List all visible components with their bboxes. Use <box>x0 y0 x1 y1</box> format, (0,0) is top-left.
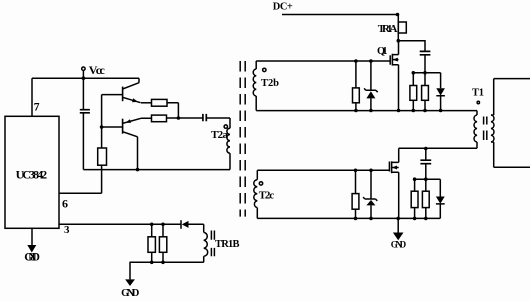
svg-text:DC+: DC+ <box>273 1 293 12</box>
svg-text:3: 3 <box>64 224 70 236</box>
svg-text:T2b: T2b <box>261 78 279 89</box>
svg-text:7: 7 <box>34 102 40 114</box>
svg-text:UC3842: UC3842 <box>16 168 47 182</box>
svg-text:6: 6 <box>62 196 68 210</box>
svg-text:Q1: Q1 <box>377 46 388 57</box>
svg-text:Vcc: Vcc <box>89 63 106 77</box>
svg-text:T2a: T2a <box>211 129 229 141</box>
svg-text:T1: T1 <box>472 88 484 99</box>
svg-text:TR1A: TR1A <box>378 23 398 35</box>
svg-text:TR1B: TR1B <box>215 239 240 250</box>
svg-text:GND: GND <box>391 240 407 250</box>
svg-text:GND: GND <box>121 288 140 299</box>
svg-text:GND: GND <box>24 252 40 264</box>
svg-text:T2c: T2c <box>259 189 274 201</box>
